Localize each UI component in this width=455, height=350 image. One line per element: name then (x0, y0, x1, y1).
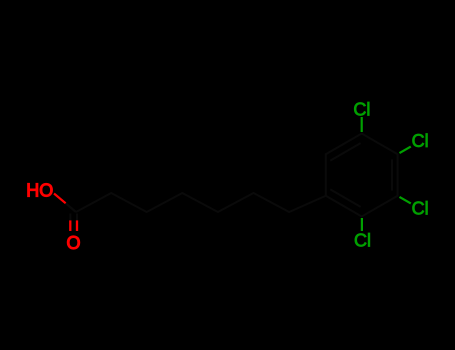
bond O-C1 red half (from hydroxyl O to carboxyl carbon) (54, 194, 66, 204)
ring inner double bond right edge (391, 159, 393, 190)
benzene ring hexagon (326, 134, 398, 217)
bond C1=O double bond red halves (69, 220, 71, 231)
bond C-Cl lower-right (green) (400, 197, 411, 204)
svg-text:Cl: Cl (412, 131, 429, 151)
svg-text:HO: HO (26, 181, 53, 201)
bond C-Cl upper-right (green) (400, 147, 411, 154)
ring inner double bond lower-left edge (330, 189, 360, 207)
bond C-Cl top (green) (361, 117, 363, 132)
chain zigzag C1..C7 to ring (76, 193, 326, 212)
svg-text:Cl: Cl (353, 99, 370, 119)
svg-text:Cl: Cl (354, 231, 371, 251)
bond C1=O double bond dark halves (69, 214, 71, 221)
bond O-C1 dark half (66, 203, 76, 212)
svg-text:O: O (67, 233, 81, 253)
bond C-Cl bottom (green) (361, 218, 363, 231)
ring inner double bond upper-left edge (330, 143, 360, 161)
svg-text:Cl: Cl (412, 198, 429, 218)
